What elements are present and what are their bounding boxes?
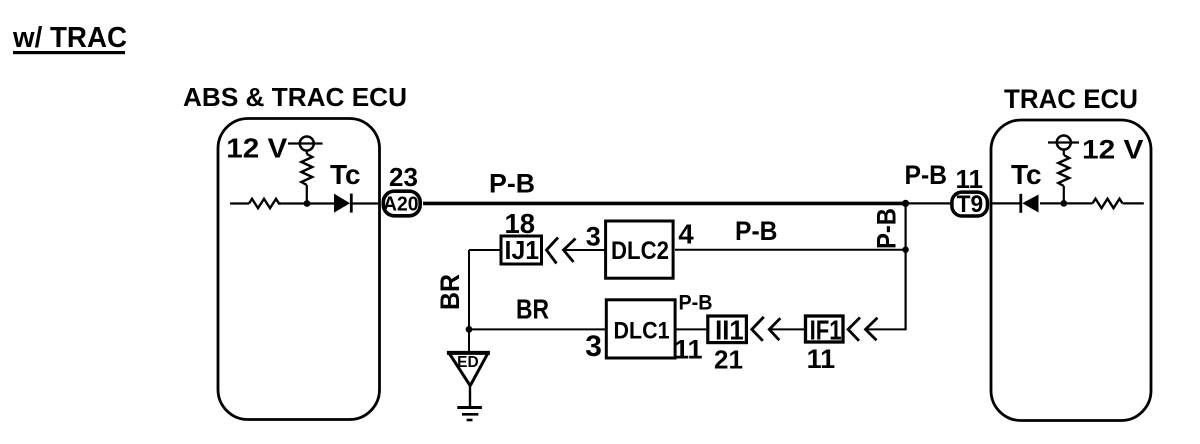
svg-text:BR: BR <box>435 274 465 310</box>
wire II1 to IF1 <box>771 328 806 330</box>
wire IJ1 to DLC2 <box>564 249 605 251</box>
ground ED triangle <box>447 353 490 386</box>
TRAC ECU box <box>991 120 1151 421</box>
resistor vertical (right) <box>1058 150 1069 204</box>
svg-text:P-B: P-B <box>871 208 901 249</box>
svg-text:IJ1: IJ1 <box>505 235 540 265</box>
svg-text:P-B: P-B <box>679 291 713 314</box>
connector chevrons IJ1 <box>547 238 576 264</box>
wire (right box horizontal) <box>991 202 1144 204</box>
svg-text:IF1: IF1 <box>810 314 842 345</box>
power terminal circle (right) <box>1048 136 1079 150</box>
svg-text:DLC2: DLC2 <box>611 237 669 265</box>
wire junction to T9 <box>906 202 952 204</box>
wire IJ1 left <box>469 249 500 251</box>
svg-text:P-B: P-B <box>905 160 948 190</box>
ABS & TRAC ECU box <box>218 119 380 420</box>
svg-text:DLC1: DLC1 <box>614 318 670 345</box>
svg-text:ED: ED <box>457 354 479 371</box>
resistor horizontal (right box) <box>1093 199 1123 208</box>
svg-text:A20: A20 <box>383 194 419 216</box>
svg-text:3: 3 <box>585 330 602 363</box>
svg-text:3: 3 <box>586 221 601 251</box>
svg-text:11: 11 <box>807 344 836 374</box>
node junction BR <box>466 326 473 333</box>
resistor horizontal (left box) <box>249 199 281 208</box>
svg-text:4: 4 <box>678 218 694 249</box>
svg-text:TRAC ECU: TRAC ECU <box>1004 84 1138 114</box>
connector T9 <box>952 191 988 218</box>
resistor vertical (left) <box>301 151 312 204</box>
svg-text:BR: BR <box>516 294 549 325</box>
connector chevrons II1 <box>752 317 781 341</box>
svg-text:11: 11 <box>956 164 984 194</box>
wire (left box horizontal) <box>230 202 379 204</box>
connector DLC2 <box>606 221 674 278</box>
wire triangle to ground <box>469 385 471 408</box>
wire vertical right branch <box>904 203 906 329</box>
connector chevrons IF1 <box>848 318 877 341</box>
connector DLC1 <box>606 300 675 358</box>
connector IF1 <box>806 314 844 345</box>
main wire P-B <box>423 202 906 206</box>
ground symbol <box>457 408 482 421</box>
diode (right box) <box>1021 194 1039 213</box>
svg-text:P-B: P-B <box>735 216 778 246</box>
wire IF1 to corner <box>867 328 906 330</box>
title w/ TRAC <box>12 22 127 54</box>
power terminal circle (left) <box>288 137 323 151</box>
svg-text:w/ TRAC: w/ TRAC <box>12 22 127 54</box>
svg-text:23: 23 <box>389 162 418 192</box>
svg-text:P-B: P-B <box>489 169 535 199</box>
svg-text:Tc: Tc <box>1011 159 1042 190</box>
node junction main <box>902 200 909 207</box>
wire DLC1 to II1 <box>675 328 708 330</box>
diode (left box) <box>334 194 351 213</box>
svg-text:12 V: 12 V <box>1082 135 1144 165</box>
wire DLC2 to junction <box>675 249 906 251</box>
wire BR horizontal <box>469 328 605 330</box>
svg-text:Tc: Tc <box>330 159 361 190</box>
svg-text:12 V: 12 V <box>226 132 287 163</box>
junction dot (left box) <box>304 200 311 207</box>
node junction DLC2 branch <box>902 247 908 253</box>
connector II1 <box>708 314 747 345</box>
svg-text:T9: T9 <box>957 191 984 218</box>
junction dot (right box) <box>1060 200 1067 207</box>
wire vertical BR <box>468 250 470 353</box>
svg-text:II1: II1 <box>715 314 744 345</box>
svg-text:21: 21 <box>714 345 743 375</box>
connector A20 <box>383 191 420 216</box>
connector IJ1 <box>501 235 542 265</box>
svg-text:ABS & TRAC ECU: ABS & TRAC ECU <box>183 82 407 112</box>
svg-text:11: 11 <box>674 335 703 365</box>
